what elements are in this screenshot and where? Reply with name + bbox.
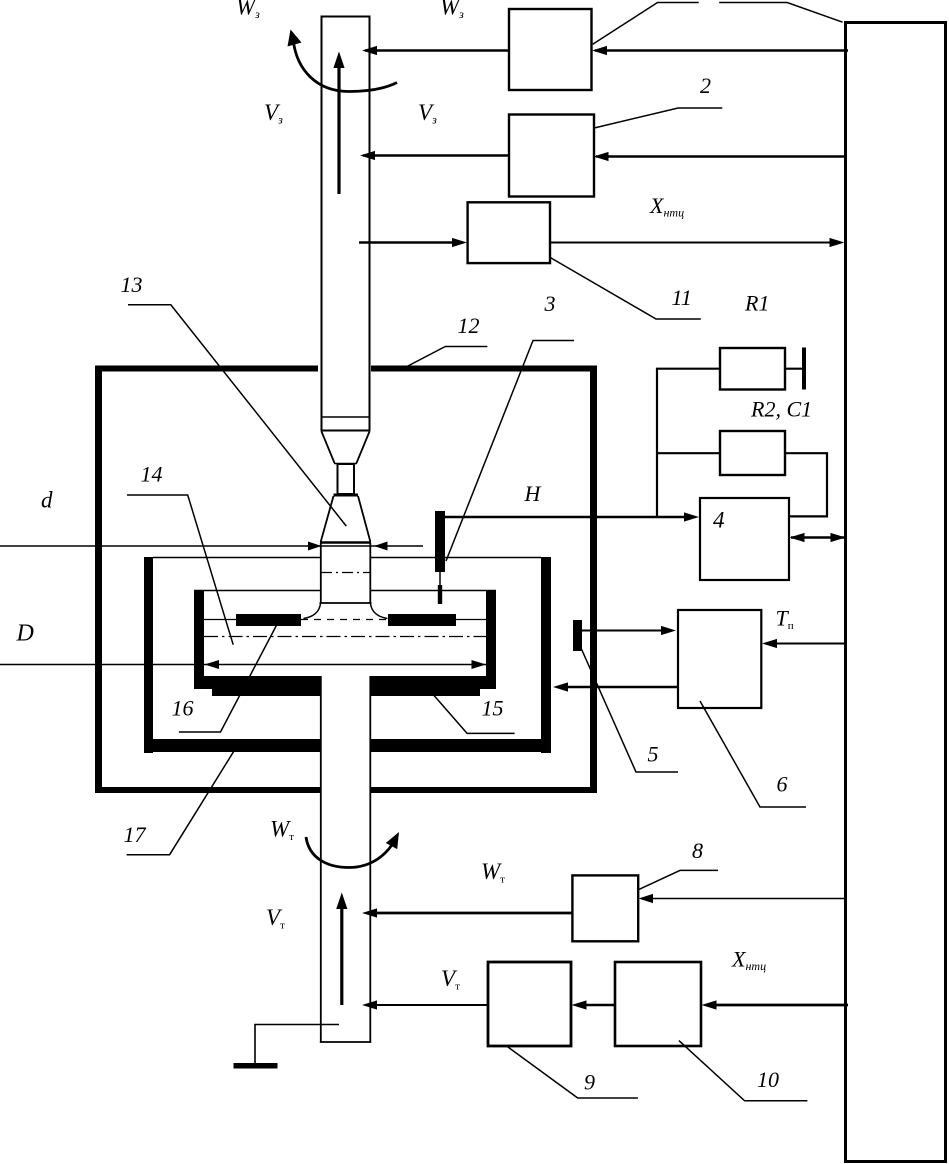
wire Vз drive to shaft — [363, 154, 509, 156]
seed pull arrow Vз — [337, 66, 340, 194]
svg-text:Vт: Vт — [266, 905, 285, 932]
svg-text:6: 6 — [777, 772, 788, 797]
wire sensor 5 to block 6 — [582, 630, 663, 632]
svg-text:10: 10 — [757, 1067, 779, 1092]
crucible shaft (lower) — [320, 676, 372, 1042]
wire controller to block 6 — [775, 643, 844, 645]
svg-text:9: 9 — [584, 1070, 595, 1095]
rotation drive block 1 — [509, 9, 592, 90]
pull drive block 2 — [509, 115, 594, 197]
crucible support plate — [212, 689, 320, 696]
leader to label 1 — [593, 3, 843, 45]
svg-text:14: 14 — [141, 462, 163, 487]
leader to label 11 — [550, 257, 701, 319]
crystal body — [320, 543, 372, 603]
svg-text:5: 5 — [648, 742, 659, 767]
svg-text:H: H — [524, 481, 542, 506]
shaft taper — [322, 432, 370, 464]
leader to label 10 — [679, 1041, 808, 1101]
melt surface dashed — [301, 619, 388, 621]
crucible 15 right wall — [486, 590, 496, 677]
svg-text:R2, C1: R2, C1 — [750, 397, 812, 422]
crystal cone 13 — [321, 496, 371, 542]
dimension D arrowheads — [205, 660, 220, 669]
position sensor block 11 — [468, 202, 550, 263]
wire H sensor to block 4 — [445, 516, 686, 519]
chamber 12 bottom wall — [95, 787, 320, 793]
heater 17 right wall — [541, 557, 551, 753]
heater bar 16 left — [236, 614, 301, 626]
leader to label 8 — [639, 870, 718, 889]
melt level dash-dot inside crystal — [321, 572, 370, 574]
bidirectional wire block 4 to controller — [791, 536, 844, 539]
wire block 10 to block 9 — [584, 1004, 615, 1006]
chamber 12 left wall — [95, 366, 102, 794]
leader to label 9 — [507, 1046, 638, 1098]
wire controller to block 2 — [596, 155, 845, 157]
capacitor end bar — [802, 348, 806, 390]
svg-text:Wт: Wт — [481, 859, 505, 886]
meniscus right — [371, 604, 388, 619]
wire shaft to block 11 — [359, 241, 454, 243]
level sensor 3 — [435, 511, 445, 572]
svg-text:4: 4 — [713, 508, 725, 533]
svg-text:Wз: Wз — [236, 0, 260, 21]
neck bottom flange — [334, 494, 359, 497]
svg-text:3: 3 — [544, 291, 556, 316]
leader to label 17 — [127, 751, 235, 855]
temperature sensor 5 — [573, 620, 582, 651]
wire left feedback connector — [657, 369, 720, 517]
leader to label 2 — [594, 108, 722, 128]
svg-text:D: D — [16, 621, 34, 647]
svg-text:13: 13 — [121, 272, 143, 297]
svg-text:Vз: Vз — [418, 100, 437, 127]
svg-text:d: d — [41, 488, 53, 513]
chamber 12 top wall — [95, 366, 597, 794]
svg-text:12: 12 — [458, 313, 480, 338]
wire Хнтц controller to block 10 — [714, 1004, 848, 1007]
wire R1 to bar — [785, 368, 802, 370]
heater top line — [153, 557, 541, 559]
svg-text:17: 17 — [124, 822, 147, 847]
wire Хнтц block 11 to controller — [550, 242, 831, 244]
wire controller to block 1 — [595, 49, 848, 51]
dimension d line — [0, 545, 423, 547]
seed holder neck — [338, 464, 355, 494]
seed rotation arc Wз — [294, 42, 398, 92]
dimension D line — [0, 664, 486, 666]
leader to label 5 — [581, 648, 678, 772]
svg-text:16: 16 — [172, 696, 194, 721]
leader to label 13 — [128, 305, 346, 526]
crucible rotation arc Wт — [306, 837, 396, 868]
regulator block 4 — [700, 498, 789, 580]
seed shaft — [322, 17, 370, 431]
svg-text:11: 11 — [672, 285, 692, 310]
leader to label 15 — [426, 687, 514, 734]
leader to label 12 — [405, 347, 487, 368]
crucible 15 left wall — [194, 590, 496, 696]
svg-text:15: 15 — [482, 696, 504, 721]
melt surface line — [204, 619, 486, 621]
crucible 15 bottom — [194, 676, 320, 689]
svg-text:8: 8 — [692, 838, 703, 863]
meniscus left — [304, 604, 321, 619]
wire right feedback connector — [785, 453, 827, 516]
svg-text:Vз: Vз — [264, 100, 283, 127]
svg-text:R1: R1 — [744, 291, 769, 316]
heater bar 16 right — [388, 614, 456, 626]
shaft flange line — [321, 416, 370, 418]
leader to label 6 — [700, 701, 806, 807]
ground — [255, 1025, 339, 1064]
dimension d arrowheads — [308, 542, 322, 551]
wire Wт block 8 to shaft — [375, 912, 572, 915]
R1 feedback box — [720, 348, 785, 390]
svg-text:Xнтц: Xнтц — [649, 193, 684, 220]
chamber 12 right wall — [590, 366, 597, 794]
svg-text:Tп: Tп — [776, 606, 794, 633]
controller block 7 (tall rectangle) — [846, 23, 946, 1162]
svg-text:Wт: Wт — [270, 817, 294, 844]
crystal top line — [320, 541, 371, 543]
leader to label 16 — [179, 623, 278, 732]
melt axis dash-dot — [204, 636, 486, 638]
wire controller to block 8 — [651, 898, 845, 900]
R2 C1 feedback box — [720, 431, 785, 475]
leader to label 3 — [446, 341, 574, 562]
svg-text:Vт: Vт — [441, 966, 460, 993]
svg-text:Wз: Wз — [440, 0, 464, 21]
wire block 6 to heater — [566, 686, 678, 688]
wire Vт block 9 to shaft — [375, 1004, 488, 1006]
crucible lift block 9 — [488, 962, 571, 1046]
leader to label 14 — [127, 495, 233, 645]
wire Wз drive to shaft — [365, 49, 509, 51]
crucible rim line — [194, 590, 496, 592]
crucible rotation block 8 — [572, 875, 638, 941]
crucible position block 10 — [615, 962, 701, 1046]
heater 17 bottom — [144, 739, 320, 752]
svg-text:Xнтц: Xнтц — [731, 947, 766, 974]
crucible lift arrow Vт — [340, 907, 343, 1005]
temperature block 6 — [678, 610, 761, 708]
svg-text:2: 2 — [700, 73, 711, 98]
heater 17 left wall — [144, 557, 551, 753]
